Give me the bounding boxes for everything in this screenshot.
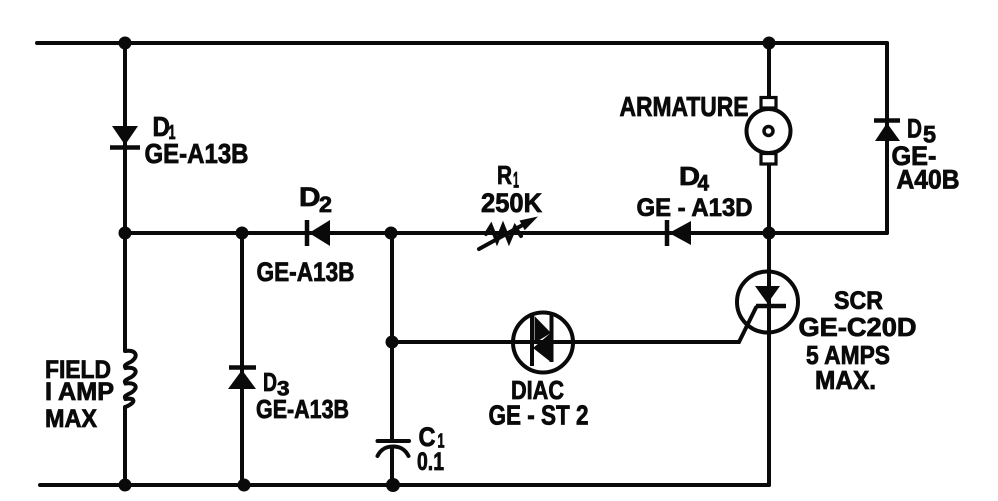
svg-text:GE - A13D: GE - A13D xyxy=(637,194,753,222)
node diac branch junction xyxy=(386,336,399,349)
wire middle bus xyxy=(125,231,887,235)
node bottom-left junction xyxy=(119,479,132,492)
svg-text:0.1: 0.1 xyxy=(417,448,444,476)
diode D1 xyxy=(110,126,140,148)
resistor R1 (variable) xyxy=(479,221,530,249)
diode D5 xyxy=(874,121,900,142)
node mid-left junction xyxy=(119,227,132,240)
wire armature top xyxy=(767,43,771,98)
diac symbol xyxy=(513,313,573,373)
svg-text:4: 4 xyxy=(698,171,710,196)
SCR Q1 symbol xyxy=(737,272,798,333)
motor armature M1 xyxy=(747,98,791,165)
svg-text:MAX: MAX xyxy=(45,405,97,433)
wire gate / diac line xyxy=(392,308,756,343)
svg-text:GE - ST 2: GE - ST 2 xyxy=(489,400,589,431)
svg-text:SCR: SCR xyxy=(834,287,883,315)
svg-text:D: D xyxy=(263,367,277,397)
node D3 bottom junction xyxy=(238,479,251,492)
svg-text:MAX.: MAX. xyxy=(815,365,876,395)
svg-text:D: D xyxy=(299,182,321,212)
node SCR anode junction xyxy=(763,227,776,240)
wire D3 branch xyxy=(240,233,244,486)
svg-text:GE-C20D: GE-C20D xyxy=(799,312,917,342)
node C1 top junction xyxy=(385,227,398,240)
capacitor C1 xyxy=(378,441,410,456)
node D3 top junction xyxy=(236,227,249,240)
svg-text:GE-A13B: GE-A13B xyxy=(256,394,349,424)
svg-text:ARMATURE: ARMATURE xyxy=(620,91,749,122)
arrowhead of R1 xyxy=(520,217,539,231)
wire bottom bus xyxy=(40,483,769,487)
svg-text:250K: 250K xyxy=(481,188,542,218)
node top-left junction xyxy=(119,37,132,50)
node top-right junction xyxy=(763,37,776,50)
diode D3 xyxy=(228,368,256,390)
wire SCR cathode to bottom xyxy=(767,233,771,485)
wire armature bottom xyxy=(767,164,771,233)
svg-text:R: R xyxy=(497,160,512,190)
wire D5 branch xyxy=(885,43,889,233)
svg-text:GE-A13B: GE-A13B xyxy=(257,257,355,287)
svg-text:I AMP: I AMP xyxy=(45,378,114,406)
diode D4 xyxy=(667,220,691,246)
wire C1 branch upper xyxy=(390,233,394,441)
inductor L field coil xyxy=(125,351,136,407)
svg-text:A40B: A40B xyxy=(897,165,960,195)
svg-text:GE-A13B: GE-A13B xyxy=(145,138,249,169)
wire C1 branch lower xyxy=(390,447,394,486)
node C1 bottom junction xyxy=(386,478,400,492)
diode D2 xyxy=(307,220,330,246)
wire top bus xyxy=(37,41,887,45)
svg-text:2: 2 xyxy=(319,192,332,217)
wire left vertical upper xyxy=(123,43,127,351)
svg-text:D: D xyxy=(907,114,922,144)
wire left vertical lower xyxy=(123,407,127,486)
